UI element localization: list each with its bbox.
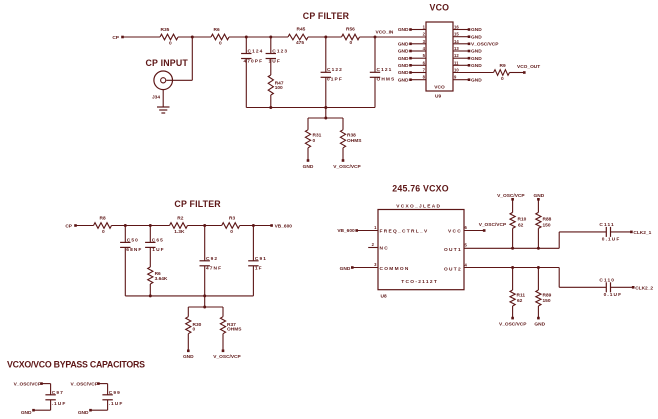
pin 9 U9 with GND bbox=[453, 79, 469, 81]
svg-text:GND: GND bbox=[303, 164, 314, 170]
node junction rail C122 bbox=[324, 106, 327, 109]
wire bbox=[512, 228, 514, 248]
svg-text:GND: GND bbox=[398, 49, 409, 55]
svg-text:J34: J34 bbox=[152, 95, 160, 101]
svg-text:62: 62 bbox=[517, 298, 523, 304]
svg-text:01PF: 01PF bbox=[327, 77, 343, 83]
wire OUT2 bbox=[464, 267, 559, 269]
svg-text:GND: GND bbox=[471, 77, 482, 83]
svg-text:3: 3 bbox=[423, 39, 426, 44]
svg-text:CP FILTER: CP FILTER bbox=[303, 11, 350, 21]
svg-text:OHMS: OHMS bbox=[227, 327, 242, 333]
svg-text:VCO: VCO bbox=[430, 3, 450, 13]
svg-text:V_OSC/VCP: V_OSC/VCP bbox=[479, 222, 507, 228]
net VCO_OUT bbox=[523, 71, 526, 74]
wire bbox=[204, 266, 206, 296]
svg-text:6: 6 bbox=[465, 225, 468, 230]
node junction rail C65 bbox=[149, 294, 152, 297]
svg-text:GND: GND bbox=[471, 56, 482, 62]
pin 1 U9 with GND bbox=[411, 29, 427, 31]
net GND (R89 bottom) bbox=[537, 317, 540, 320]
svg-text:GND: GND bbox=[398, 70, 409, 76]
svg-text:VCXO/VCO BYPASS CAPACITORS: VCXO/VCO BYPASS CAPACITORS bbox=[7, 360, 145, 370]
svg-text:C50: C50 bbox=[127, 237, 139, 243]
svg-text:5: 5 bbox=[423, 53, 426, 58]
svg-text:9: 9 bbox=[454, 75, 457, 80]
resistor R6 (middle) bbox=[148, 267, 153, 284]
oscillator U8 body bbox=[378, 210, 464, 290]
wire bbox=[307, 118, 309, 130]
svg-text:TCO-2112T: TCO-2112T bbox=[401, 279, 438, 285]
pin 16 U9 with GND bbox=[453, 29, 469, 31]
svg-text:3.64K: 3.64K bbox=[155, 276, 168, 282]
resistor R38 bbox=[340, 130, 345, 148]
ground (J34) bbox=[157, 106, 170, 108]
svg-text:C91: C91 bbox=[255, 256, 267, 262]
wire bbox=[204, 226, 206, 261]
capacitor C50 bbox=[120, 241, 130, 243]
node junction C92 bbox=[203, 224, 206, 227]
capacitor C123 bbox=[266, 53, 276, 55]
svg-text:CP: CP bbox=[65, 224, 72, 230]
node junction middle sub rail bbox=[203, 306, 206, 309]
net CLK2_2 bbox=[632, 286, 635, 289]
svg-text:V_OSC/VCP: V_OSC/VCP bbox=[497, 193, 525, 199]
wire bbox=[342, 148, 344, 161]
resistor R37 bbox=[220, 317, 225, 334]
svg-text:47NF: 47NF bbox=[206, 265, 222, 271]
svg-text:GND: GND bbox=[21, 410, 32, 416]
wire bbox=[512, 306, 514, 318]
pin 6 U9 with GND bbox=[411, 64, 427, 66]
svg-text:150: 150 bbox=[543, 223, 551, 229]
svg-text:1: 1 bbox=[423, 25, 426, 30]
svg-text:V_OSC/VCP: V_OSC/VCP bbox=[14, 382, 42, 388]
resistor R9 bbox=[494, 70, 510, 76]
wire bbox=[229, 36, 288, 38]
node junction CP input branch bbox=[191, 36, 194, 39]
wire bbox=[308, 36, 342, 38]
node junction rail C123 bbox=[269, 106, 272, 109]
resistor R2 bbox=[170, 223, 188, 229]
svg-text:0.1UF: 0.1UF bbox=[602, 237, 621, 243]
wire bbox=[222, 307, 224, 317]
wire bbox=[162, 90, 164, 107]
net GND (R31) bbox=[307, 159, 310, 162]
svg-text:NC: NC bbox=[380, 246, 390, 252]
svg-text:68NF: 68NF bbox=[126, 247, 142, 253]
capacitor C65 bbox=[145, 241, 155, 243]
wire bbox=[512, 199, 514, 212]
wire (middle ground rail) bbox=[125, 295, 253, 297]
wire (sub rail) bbox=[308, 117, 343, 119]
svg-text:C99: C99 bbox=[109, 390, 121, 396]
svg-text:R2: R2 bbox=[177, 216, 183, 222]
node junction sub rail bbox=[324, 117, 327, 120]
connector J34 bbox=[154, 71, 173, 90]
svg-text:2: 2 bbox=[372, 242, 375, 247]
svg-text:C111: C111 bbox=[599, 222, 614, 228]
wire bbox=[325, 37, 327, 72]
svg-text:GND: GND bbox=[398, 27, 409, 33]
capacitor C91 bbox=[248, 260, 258, 262]
net V_OSC/VCP (R11 bottom) bbox=[511, 317, 514, 320]
svg-text:3: 3 bbox=[374, 262, 377, 267]
svg-text:CLK2_2: CLK2_2 bbox=[635, 285, 653, 291]
svg-text:.1UF: .1UF bbox=[109, 401, 124, 407]
capacitor C110 bbox=[605, 282, 607, 292]
svg-text:GND: GND bbox=[398, 63, 409, 69]
svg-text:R31: R31 bbox=[313, 133, 322, 139]
capacitor C121 bbox=[370, 71, 380, 73]
wire bbox=[112, 225, 170, 227]
pin 14 U9 net V_OSC/VCP bbox=[453, 43, 469, 45]
wire bbox=[178, 36, 211, 38]
node junction C123 bbox=[269, 36, 272, 39]
svg-text:OUT2: OUT2 bbox=[444, 266, 462, 272]
svg-text:GND: GND bbox=[340, 266, 351, 272]
svg-text:5: 5 bbox=[465, 243, 468, 248]
wire (middle sub rail) bbox=[188, 306, 223, 308]
svg-text:12: 12 bbox=[454, 53, 459, 58]
svg-text:C92: C92 bbox=[206, 256, 218, 262]
svg-text:0: 0 bbox=[193, 327, 196, 333]
svg-text:R88: R88 bbox=[543, 216, 552, 222]
svg-text:R8: R8 bbox=[100, 216, 106, 222]
pin 5 U9 with GND bbox=[411, 57, 427, 59]
svg-text:V_OSC/VCP: V_OSC/VCP bbox=[71, 382, 99, 388]
svg-text:C123: C123 bbox=[272, 49, 288, 55]
wire pin10 bbox=[453, 72, 494, 74]
wire bbox=[537, 199, 539, 212]
wire bbox=[537, 306, 539, 318]
svg-text:VCO: VCO bbox=[434, 84, 445, 90]
svg-text:GND: GND bbox=[534, 193, 545, 199]
wire bbox=[149, 247, 151, 267]
wire (top filter ground rail) bbox=[246, 107, 375, 109]
svg-text:R11: R11 bbox=[517, 292, 526, 298]
svg-text:COMMON: COMMON bbox=[380, 266, 410, 272]
node junction R11/OUT2 bbox=[511, 266, 514, 269]
svg-text:R89: R89 bbox=[543, 292, 552, 298]
capacitor C122 bbox=[321, 71, 331, 73]
wire bbox=[245, 37, 247, 54]
wire bbox=[611, 286, 634, 288]
pin 7 U9 with GND bbox=[411, 72, 427, 74]
pin 8 U9 with GND bbox=[411, 79, 427, 81]
svg-text:VB_600: VB_600 bbox=[275, 224, 293, 230]
svg-text:R9: R9 bbox=[500, 63, 506, 69]
resistor R6 bbox=[211, 34, 229, 40]
svg-text:0: 0 bbox=[313, 138, 316, 144]
resistor R88 bbox=[536, 212, 541, 228]
svg-text:4: 4 bbox=[423, 46, 426, 51]
node junction C91 bbox=[252, 224, 255, 227]
svg-text:245.76 VCXO: 245.76 VCXO bbox=[392, 184, 448, 194]
svg-text:C110: C110 bbox=[599, 277, 615, 283]
wire bbox=[149, 226, 151, 243]
svg-text:0.1UF: 0.1UF bbox=[604, 292, 623, 298]
svg-text:GND: GND bbox=[471, 27, 482, 33]
wire bbox=[270, 37, 272, 54]
svg-text:1: 1 bbox=[374, 225, 377, 230]
svg-text:R6: R6 bbox=[214, 27, 220, 33]
net V_OSC/VCP (R37) bbox=[222, 350, 225, 353]
svg-text:7: 7 bbox=[423, 68, 426, 73]
wire bbox=[252, 226, 254, 261]
svg-text:11: 11 bbox=[454, 60, 459, 65]
wire bbox=[270, 95, 272, 108]
svg-text:GND: GND bbox=[398, 56, 409, 62]
pin 4 U9 with GND bbox=[411, 50, 427, 52]
svg-text:GND: GND bbox=[471, 49, 482, 55]
svg-text:V_OSC/VCP: V_OSC/VCP bbox=[471, 42, 499, 48]
svg-text:4: 4 bbox=[465, 263, 468, 268]
svg-text:0: 0 bbox=[350, 40, 353, 46]
capacitor C111 bbox=[605, 227, 607, 237]
svg-text:R45: R45 bbox=[297, 27, 306, 33]
svg-text:R35: R35 bbox=[161, 27, 170, 33]
wire bbox=[510, 72, 525, 74]
resistor R30 bbox=[186, 317, 191, 334]
pin 3 U9 with GND bbox=[411, 43, 427, 45]
wire bbox=[191, 37, 193, 80]
wire bbox=[240, 225, 272, 227]
svg-text:R38: R38 bbox=[347, 133, 356, 139]
svg-text:.1UF: .1UF bbox=[52, 401, 67, 407]
pin 11 U9 with GND bbox=[453, 64, 469, 66]
svg-text:GND: GND bbox=[398, 77, 409, 83]
wire bbox=[123, 36, 161, 38]
capacitor C124 bbox=[241, 53, 251, 55]
svg-text:V_OSC/VCP: V_OSC/VCP bbox=[333, 164, 361, 170]
svg-text:R10: R10 bbox=[518, 216, 527, 222]
svg-text:GND: GND bbox=[471, 63, 482, 69]
svg-text:CP INPUT: CP INPUT bbox=[146, 58, 189, 68]
wire bbox=[187, 334, 189, 351]
svg-text:6: 6 bbox=[423, 60, 426, 65]
svg-text:V_OSC/VCP: V_OSC/VCP bbox=[213, 354, 241, 360]
op-amp U9 body (VCO block) bbox=[426, 22, 453, 91]
svg-text:GND: GND bbox=[78, 410, 89, 416]
svg-text:OUT1: OUT1 bbox=[444, 247, 462, 253]
svg-text:15: 15 bbox=[454, 32, 459, 37]
wire bbox=[360, 36, 427, 38]
resistor R3 bbox=[222, 223, 240, 229]
svg-text:10: 10 bbox=[454, 68, 459, 73]
svg-text:C65: C65 bbox=[152, 237, 164, 243]
wire bbox=[307, 148, 309, 161]
pin 13 U9 with GND bbox=[453, 50, 469, 52]
svg-text:R56: R56 bbox=[346, 27, 355, 33]
wire bbox=[124, 247, 126, 296]
wire bbox=[537, 268, 539, 291]
svg-text:14: 14 bbox=[454, 39, 459, 44]
node junction R88/OUT1 bbox=[537, 247, 540, 250]
wire bbox=[611, 231, 632, 233]
svg-text:VCO_IN: VCO_IN bbox=[376, 30, 394, 36]
svg-text:VCXO_JLEAD: VCXO_JLEAD bbox=[396, 203, 441, 209]
resistor R11 bbox=[510, 290, 515, 306]
svg-text:GND: GND bbox=[183, 354, 194, 360]
node junction rail C92 bbox=[203, 294, 206, 297]
wire bbox=[512, 268, 514, 291]
svg-text:GND: GND bbox=[398, 42, 409, 48]
svg-text:13: 13 bbox=[454, 46, 459, 51]
pin 2 U8 NC bbox=[368, 247, 378, 249]
svg-text:0: 0 bbox=[501, 76, 504, 82]
pin 15 U9 with GND bbox=[453, 36, 469, 38]
wire bbox=[222, 334, 224, 351]
net VB_600 bbox=[270, 224, 273, 227]
wire bbox=[124, 226, 126, 243]
net GND (R30) bbox=[187, 350, 190, 353]
wire bbox=[325, 108, 327, 119]
svg-text:OHMS: OHMS bbox=[347, 138, 362, 144]
svg-text:C122: C122 bbox=[327, 67, 343, 73]
node junction C122 bbox=[324, 36, 327, 39]
svg-text:2: 2 bbox=[423, 32, 426, 37]
resistor R45 bbox=[288, 34, 308, 40]
wire bbox=[270, 59, 272, 76]
wire bbox=[252, 266, 254, 296]
resistor R8 bbox=[94, 223, 112, 229]
wire bbox=[204, 296, 206, 307]
capacitor C92 bbox=[200, 260, 210, 262]
svg-text:16: 16 bbox=[454, 25, 459, 30]
svg-text:C97: C97 bbox=[52, 390, 64, 396]
svg-text:150: 150 bbox=[543, 298, 551, 304]
wire bbox=[325, 77, 327, 107]
svg-text:0: 0 bbox=[219, 41, 222, 47]
svg-text:U9: U9 bbox=[435, 94, 441, 100]
svg-text:1UF: 1UF bbox=[152, 247, 164, 253]
node junction R10/OUT1 bbox=[511, 247, 514, 250]
wire OUT1 bbox=[464, 247, 559, 249]
svg-text:475: 475 bbox=[296, 40, 304, 46]
svg-text:VCO_OUT: VCO_OUT bbox=[517, 64, 540, 70]
node junction C50 bbox=[124, 224, 127, 227]
pin 12 U9 with GND bbox=[453, 57, 469, 59]
wire bbox=[188, 225, 222, 227]
resistor R31 bbox=[305, 130, 310, 148]
svg-text:U8: U8 bbox=[381, 294, 387, 300]
resistor R56 bbox=[342, 34, 360, 40]
wire bbox=[149, 284, 151, 296]
net V_OSC/VCP (R38) bbox=[342, 159, 345, 162]
wire bbox=[374, 37, 376, 72]
node junction R89/OUT2 bbox=[537, 266, 540, 269]
svg-text:OHMS: OHMS bbox=[377, 77, 396, 83]
svg-text:C124: C124 bbox=[248, 49, 264, 55]
svg-text:0: 0 bbox=[230, 229, 233, 235]
svg-text:1F: 1F bbox=[255, 265, 263, 271]
resistor R89 bbox=[536, 290, 541, 306]
wire bbox=[187, 307, 189, 317]
node junction C65 bbox=[149, 224, 152, 227]
resistor R35 bbox=[160, 34, 178, 40]
svg-text:CLK2_1: CLK2_1 bbox=[633, 230, 651, 236]
svg-text:0: 0 bbox=[102, 229, 105, 235]
svg-text:GND: GND bbox=[471, 34, 482, 40]
svg-text:VCC: VCC bbox=[448, 229, 462, 235]
svg-text:GND: GND bbox=[534, 321, 545, 327]
svg-text:CP: CP bbox=[112, 35, 119, 41]
node junction C124 bbox=[245, 36, 248, 39]
svg-text:1.3K: 1.3K bbox=[174, 229, 185, 235]
wire bbox=[245, 59, 247, 108]
svg-text:62: 62 bbox=[518, 223, 524, 229]
wire bbox=[76, 225, 94, 227]
resistor R10 bbox=[510, 212, 515, 228]
svg-text:R3: R3 bbox=[229, 216, 235, 222]
svg-text:100: 100 bbox=[275, 85, 283, 91]
wire bbox=[374, 77, 376, 107]
svg-text:VB_600: VB_600 bbox=[337, 228, 355, 234]
svg-text:FREQ_CTRL_V: FREQ_CTRL_V bbox=[380, 229, 429, 235]
svg-text:0: 0 bbox=[169, 41, 172, 47]
node VCO_IN bbox=[374, 36, 377, 39]
svg-text:8: 8 bbox=[423, 75, 426, 80]
wire bbox=[342, 118, 344, 130]
svg-text:C121: C121 bbox=[377, 67, 393, 73]
svg-text:CP FILTER: CP FILTER bbox=[174, 199, 221, 209]
wire bbox=[537, 228, 539, 248]
resistor R47 bbox=[268, 75, 273, 95]
net CLK2_1 bbox=[630, 231, 633, 234]
svg-text:V_OSC/VCP: V_OSC/VCP bbox=[499, 321, 527, 327]
